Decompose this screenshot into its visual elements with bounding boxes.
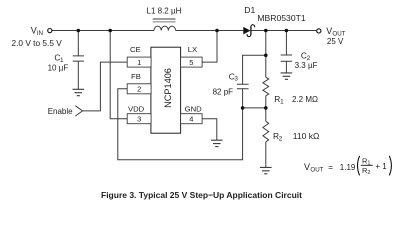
svg-text:1: 1 (280, 99, 284, 106)
svg-text:2.0 V to 5.5 V: 2.0 V to 5.5 V (12, 38, 63, 48)
svg-text:V: V (326, 26, 332, 36)
svg-text:CE: CE (130, 45, 141, 54)
svg-text:Figure 3. Typical 25 V Step−Up: Figure 3. Typical 25 V Step−Up Applicati… (101, 190, 302, 200)
svg-text:+ 1: + 1 (375, 162, 387, 171)
svg-text:D1: D1 (244, 5, 255, 15)
svg-text:2.2 MΩ: 2.2 MΩ (292, 95, 318, 104)
svg-text:VDD: VDD (128, 105, 145, 114)
svg-text:OUT: OUT (310, 166, 323, 173)
svg-text:2: 2 (279, 136, 283, 143)
svg-text:FB: FB (131, 72, 141, 81)
svg-text:=: = (328, 163, 333, 172)
svg-text:2: 2 (137, 85, 141, 94)
svg-text:L1 8.2 µH: L1 8.2 µH (147, 6, 182, 15)
svg-text:1: 1 (137, 58, 141, 67)
svg-text:82 pF: 82 pF (213, 88, 234, 97)
svg-text:Enable: Enable (48, 107, 73, 116)
svg-text:1.19: 1.19 (340, 163, 356, 172)
svg-text:GND: GND (185, 105, 203, 114)
svg-text:110 kΩ: 110 kΩ (293, 131, 320, 141)
svg-text:25 V: 25 V (327, 37, 344, 46)
svg-text:NCP1406: NCP1406 (163, 68, 173, 108)
svg-text:3.3 µF: 3.3 µF (295, 61, 318, 70)
svg-text:3: 3 (137, 115, 141, 124)
svg-text:10 µF: 10 µF (48, 63, 69, 72)
svg-text:MBR0530T1: MBR0530T1 (257, 13, 305, 23)
svg-text:3: 3 (234, 76, 238, 83)
svg-text:2: 2 (367, 170, 370, 176)
svg-text:IN: IN (37, 30, 43, 37)
svg-text:4: 4 (189, 115, 193, 124)
svg-text:5: 5 (189, 58, 193, 67)
svg-text:V: V (304, 162, 310, 172)
svg-text:LX: LX (188, 45, 197, 54)
